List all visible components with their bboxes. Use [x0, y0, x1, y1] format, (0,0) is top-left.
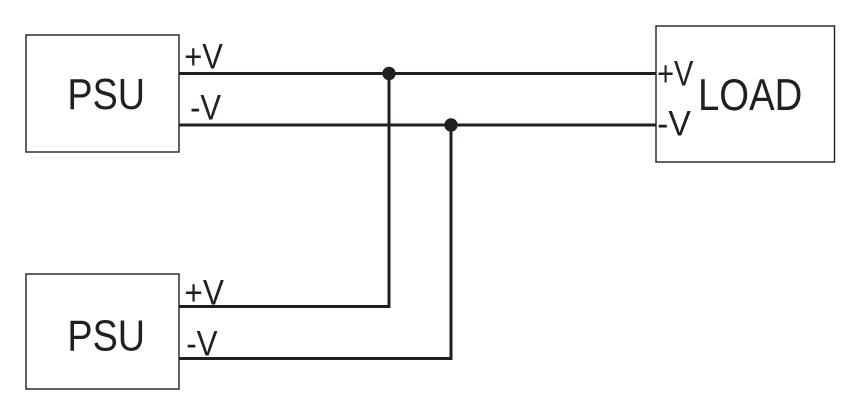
svg-text:PSU: PSU: [67, 313, 145, 361]
svg-text:+V: +V: [657, 54, 694, 93]
node junction J2 on -V rail: [444, 118, 457, 131]
wire vertical drop from node J1 to PSU2 +V: [388, 74, 391, 309]
wire +V rail from PSU1 to LOAD: [179, 72, 656, 75]
wire PSU2 +V horizontal: [179, 305, 391, 308]
PSU U2 box: [26, 274, 179, 389]
PSU U1 box: [26, 35, 179, 152]
svg-text:-V: -V: [657, 105, 691, 144]
svg-text:-V: -V: [190, 89, 222, 128]
node junction J1 on +V rail: [382, 67, 395, 80]
svg-text:LOAD: LOAD: [698, 71, 802, 120]
svg-text:+V: +V: [184, 37, 223, 76]
LOAD box: [656, 26, 835, 162]
svg-text:PSU: PSU: [67, 71, 145, 119]
wire vertical drop from node J2 to PSU2 -V: [450, 125, 453, 360]
wire PSU2 -V horizontal: [179, 357, 453, 360]
wire -V rail from PSU1 to LOAD: [179, 124, 656, 127]
svg-text:+V: +V: [184, 273, 224, 312]
svg-text:-V: -V: [186, 324, 218, 363]
